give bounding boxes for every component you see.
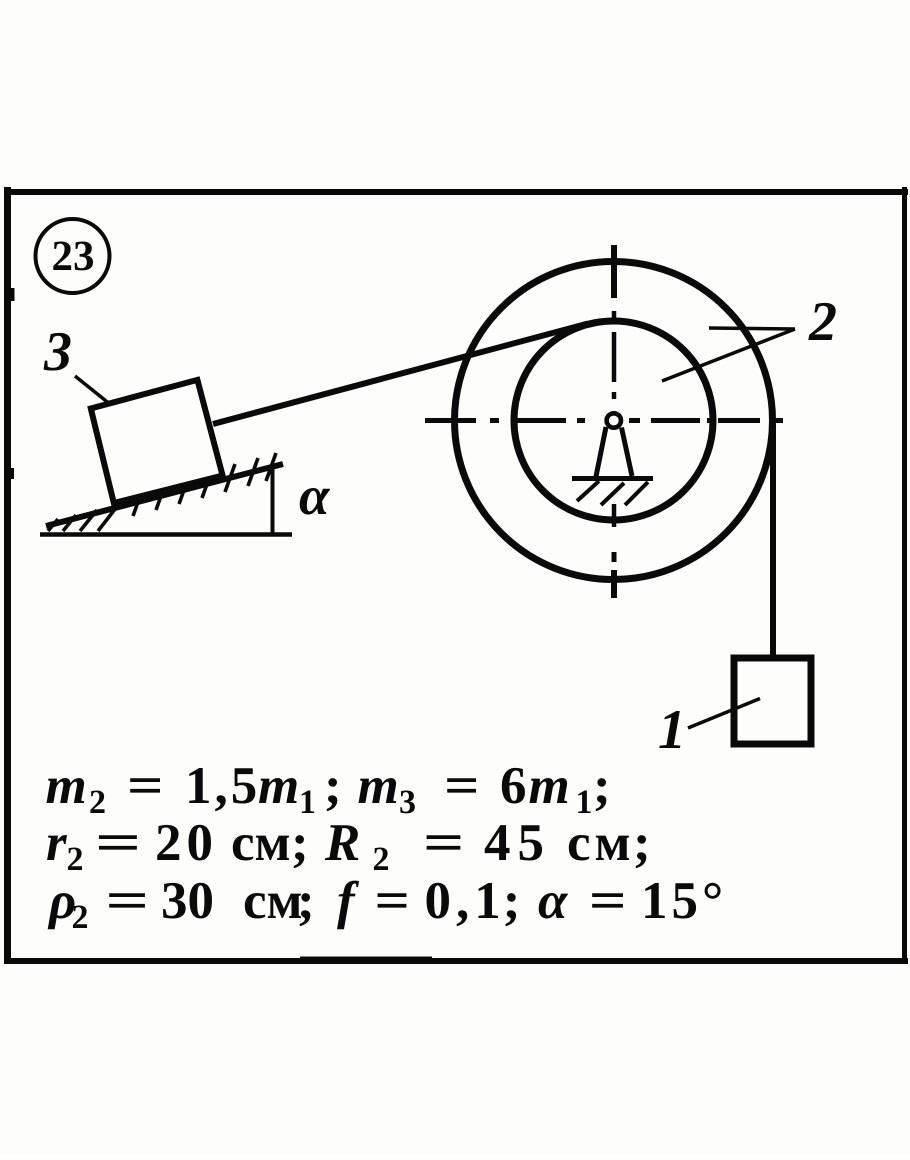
problem number circle <box>36 219 110 293</box>
frame border left <box>4 187 11 964</box>
svg-text:1: 1 <box>658 699 686 761</box>
svg-text:2: 2 <box>72 899 89 936</box>
svg-text:20: 20 <box>155 814 218 872</box>
incline hatching <box>48 453 276 531</box>
svg-text:m: m <box>529 757 570 815</box>
leader line to block 3 <box>75 376 126 417</box>
support hatching <box>577 481 648 505</box>
svg-text:45: 45 <box>484 814 551 872</box>
svg-text:=: = <box>589 872 627 930</box>
svg-text:α: α <box>538 872 568 930</box>
svg-text:3: 3 <box>399 784 416 821</box>
svg-text:m: m <box>46 757 87 815</box>
block 3 <box>91 380 223 503</box>
svg-text:1,5: 1,5 <box>185 757 260 815</box>
vertical centerline (dash-dot) <box>611 245 617 598</box>
data text line 3 <box>47 872 727 936</box>
svg-text:m: m <box>258 757 299 815</box>
svg-text:15°: 15° <box>641 872 727 930</box>
support triangle <box>596 427 632 477</box>
weight 1 <box>734 658 811 744</box>
svg-text:;: ; <box>503 872 521 930</box>
pulley inner circle <box>514 321 713 520</box>
support ground line <box>572 476 653 481</box>
svg-text:0,1: 0,1 <box>425 872 506 930</box>
svg-text:;: ; <box>297 872 315 930</box>
svg-text:6: 6 <box>500 757 527 815</box>
svg-text:r: r <box>46 814 68 872</box>
leader line to label 1 <box>688 699 760 729</box>
svg-text:R: R <box>324 814 360 872</box>
svg-text:;: ; <box>633 814 651 872</box>
svg-text:23: 23 <box>52 233 95 280</box>
pivot pin <box>607 413 621 427</box>
svg-text:=: = <box>423 814 464 872</box>
svg-text:m: m <box>358 757 399 815</box>
frame border right <box>902 187 907 964</box>
data text line 2 <box>46 814 651 878</box>
svg-text:3: 3 <box>43 321 72 383</box>
svg-text:α: α <box>299 465 331 526</box>
pulley outer circle <box>455 262 773 580</box>
frame border top <box>4 189 908 195</box>
incline surface line <box>46 464 283 526</box>
svg-text:;: ; <box>324 757 342 815</box>
ground baseline <box>40 532 292 537</box>
scan artifact: left border nub <box>11 288 15 301</box>
svg-text:см: см <box>243 872 303 930</box>
frame border bottom <box>4 958 908 964</box>
svg-text:=: = <box>444 757 479 815</box>
svg-text:2: 2 <box>808 291 837 353</box>
svg-text:=: = <box>105 872 149 930</box>
svg-text:см: см <box>231 814 291 872</box>
rope from pulley to weight 1 <box>770 424 776 660</box>
svg-text:;: ; <box>593 757 611 815</box>
svg-text:;: ; <box>291 814 309 872</box>
rope from block to pulley <box>213 324 588 425</box>
svg-text:см: см <box>567 814 635 872</box>
horizontal centerline (dash-dot) <box>425 418 783 423</box>
data text line 1 <box>46 757 611 821</box>
svg-text:30: 30 <box>161 872 214 930</box>
svg-text:=: = <box>95 814 142 872</box>
angle vertical line <box>271 466 275 534</box>
scan artifact: bottom border thickening <box>300 957 432 961</box>
svg-text:=: = <box>127 757 164 815</box>
svg-text:=: = <box>375 872 410 930</box>
leader lines to label 2 <box>709 328 795 329</box>
scan artifact: left border nub2 <box>11 468 14 479</box>
